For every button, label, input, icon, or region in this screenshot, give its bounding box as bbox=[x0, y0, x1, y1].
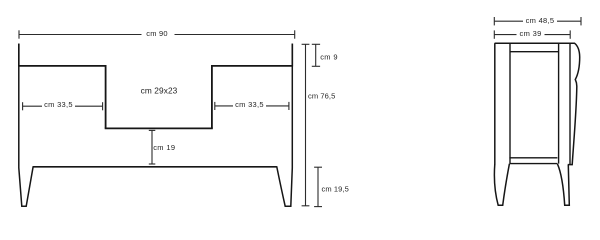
front view: recess bottom shelf bbox=[105, 127, 213, 129]
svg-text:cm 33,5: cm 33,5 bbox=[235, 100, 264, 109]
svg-text:cm 90: cm 90 bbox=[146, 29, 167, 38]
side view: right leg bbox=[557, 164, 569, 205]
svg-text:cm 19: cm 19 bbox=[153, 143, 175, 152]
svg-text:cm 39: cm 39 bbox=[520, 29, 542, 38]
front view: left side panel stub bbox=[18, 44, 20, 67]
dimension cm 9 bbox=[312, 44, 320, 66]
dimension cm 48,5 bbox=[494, 17, 581, 25]
side view: outer curved edge bbox=[568, 57, 580, 165]
svg-text:cm 33,5: cm 33,5 bbox=[44, 100, 73, 109]
front view: outline with legs and apron bbox=[19, 44, 293, 207]
dimension cm 76,5 bbox=[302, 44, 310, 206]
front view: left block top bbox=[19, 66, 106, 128]
svg-text:cm 9: cm 9 bbox=[320, 52, 338, 61]
dimension cm 33,5 left bbox=[23, 102, 103, 110]
side view: stretcher rail bbox=[509, 158, 557, 164]
dimension cm 19,5 bbox=[314, 167, 322, 206]
side view: left leg bbox=[494, 164, 509, 206]
dimension cm 33,5 right bbox=[215, 102, 289, 110]
side view: recessed panel top bbox=[510, 51, 559, 53]
svg-text:cm 48,5: cm 48,5 bbox=[526, 16, 555, 25]
dimension cm 19 bbox=[149, 130, 156, 164]
svg-text:cm 29x23: cm 29x23 bbox=[141, 86, 178, 96]
side view: panel right vertical bbox=[558, 43, 560, 163]
svg-text:cm 76,5: cm 76,5 bbox=[308, 92, 335, 101]
dimension cm 90 bbox=[19, 30, 295, 38]
dimension cm 39 bbox=[494, 30, 570, 38]
side view: back panel vertical bbox=[569, 43, 571, 164]
side view: top surface bbox=[495, 43, 580, 57]
front view: right side panel stub bbox=[291, 44, 293, 67]
side view: left inner vertical bbox=[509, 43, 511, 163]
side view: left outer edge bbox=[494, 43, 496, 164]
front view: right block top bbox=[212, 66, 292, 128]
svg-text:cm 19,5: cm 19,5 bbox=[322, 184, 349, 193]
front view: apron bottom line bbox=[33, 166, 277, 168]
